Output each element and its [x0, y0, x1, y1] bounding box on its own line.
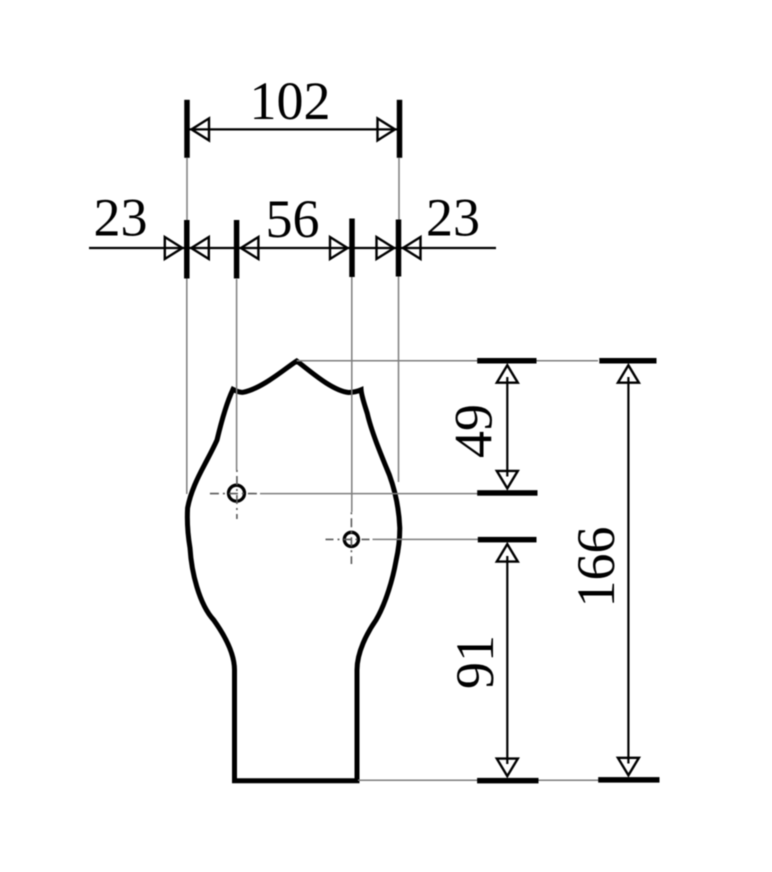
arrow 102 left [192, 118, 210, 140]
centerline hole1 horizontal [210, 493, 260, 495]
centerline hole2 horizontal [326, 538, 373, 540]
arrow 102 right [378, 118, 396, 140]
extension line A down to belly [186, 279, 188, 495]
tick 166 top [599, 358, 656, 364]
tick 49 bottom [477, 490, 537, 496]
arrow 166 down [618, 758, 639, 776]
tick 102 left [184, 100, 190, 158]
arrow at A from left [165, 237, 183, 259]
part outline [187, 361, 399, 781]
svg-text:91: 91 [445, 635, 505, 689]
tick 102 right [397, 100, 403, 158]
arrow 49 down [497, 471, 518, 489]
arrow 49 up [497, 365, 518, 383]
svg-text:166: 166 [566, 527, 626, 608]
arrow at A from right [191, 237, 209, 259]
extension line from 102 left tick [186, 158, 188, 220]
svg-text:102: 102 [250, 71, 331, 131]
arrow 91 down [497, 759, 518, 777]
extension line B down to hole 1 [236, 279, 238, 470]
tick C [349, 219, 355, 278]
tick B [234, 220, 240, 279]
tick 91 bottom [477, 778, 538, 784]
dim line row2 [89, 247, 496, 249]
arrow at B from right [241, 237, 259, 259]
arrow 91 up [497, 544, 518, 562]
svg-text:49: 49 [444, 404, 504, 458]
extension line from 102 right tick [398, 158, 400, 220]
hole 1 [229, 485, 245, 501]
tick 91 top [478, 537, 537, 543]
dim line 102 [187, 128, 400, 130]
dim line 166 [627, 377, 629, 764]
dim line 49 [506, 377, 508, 477]
tick D [396, 220, 402, 277]
arrow at D from left [377, 237, 395, 259]
extension line hole2 level [373, 538, 537, 540]
arrow at C from left [330, 237, 348, 259]
svg-text:23: 23 [426, 188, 480, 248]
extension line hole1 level [260, 493, 537, 495]
tick 166 bottom [598, 777, 659, 783]
extension line bottom [358, 779, 659, 781]
tick A [184, 220, 190, 279]
centerline hole2 vertical [350, 512, 352, 564]
arrow at D from right [403, 237, 421, 259]
dim line 91 [506, 556, 508, 764]
tick 49 top [477, 358, 536, 364]
svg-text:23: 23 [94, 188, 148, 248]
arrow 166 up [618, 365, 639, 383]
svg-text:56: 56 [266, 189, 320, 249]
extension line D down to belly [398, 277, 400, 483]
extension line from peak to right [297, 360, 598, 362]
hole 2 [344, 532, 358, 546]
extension line C down to hole 2 [351, 277, 353, 512]
centerline hole1 vertical [236, 470, 238, 519]
